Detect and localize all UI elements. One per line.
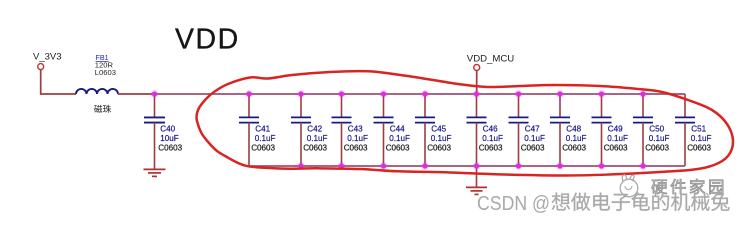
svg-text:C0603: C0603: [158, 144, 182, 153]
wire FB1 to C40 junction: [118, 93, 155, 95]
svg-text:0.1uF: 0.1uF: [389, 134, 410, 143]
capacitor C40: [144, 94, 165, 169]
svg-text:C43: C43: [348, 124, 363, 133]
svg-text:0.1uF: 0.1uF: [431, 134, 452, 143]
capacitor C48: [550, 94, 570, 166]
svg-text:C0603: C0603: [687, 144, 711, 153]
svg-text:C49: C49: [608, 124, 623, 133]
svg-text:V_3V3: V_3V3: [33, 51, 62, 62]
ground below bus: [466, 187, 487, 194]
svg-text:C0603: C0603: [251, 144, 275, 153]
capacitor C44: [374, 94, 394, 166]
svg-text:0.1uF: 0.1uF: [566, 134, 587, 143]
svg-text:C48: C48: [566, 124, 581, 133]
C42 labels: [303, 124, 327, 152]
C51 labels: [687, 124, 711, 152]
ferrite bead FB1 inductor symbol: [76, 89, 118, 94]
svg-text:0.1uF: 0.1uF: [255, 134, 276, 143]
svg-text:C44: C44: [390, 124, 405, 133]
bottom bus wire: [249, 165, 685, 167]
svg-text:10uF: 10uF: [160, 134, 179, 143]
wire VDD_MCU to bus: [476, 71, 478, 95]
label cizhu (magnetic bead): [94, 105, 102, 113]
svg-text:C50: C50: [649, 124, 664, 133]
svg-text:C0603: C0603: [479, 144, 503, 153]
svg-text:C0603: C0603: [303, 144, 327, 153]
svg-text:C42: C42: [307, 124, 322, 133]
watermark text yingjian jiayuan: [652, 180, 667, 194]
svg-text:C0603: C0603: [645, 144, 669, 153]
svg-text:L0603: L0603: [95, 68, 116, 77]
capacitor C51: [675, 94, 695, 166]
capacitor C43: [332, 94, 352, 166]
C44 labels: [386, 124, 410, 152]
capacitor C50: [633, 94, 653, 166]
svg-text:C0603: C0603: [386, 144, 410, 153]
C49 labels: [604, 124, 628, 152]
C40 labels: [158, 124, 182, 152]
power port VDD_MCU circle: [474, 65, 480, 71]
svg-text:VDD_MCU: VDD_MCU: [467, 53, 515, 64]
C50 labels: [645, 124, 669, 152]
svg-text:C40: C40: [160, 124, 175, 133]
svg-text:0.1uF: 0.1uF: [482, 134, 503, 143]
svg-text:0.1uF: 0.1uF: [524, 134, 545, 143]
capacitor C41: [239, 94, 259, 166]
C46 labels: [479, 124, 503, 152]
svg-text:0.1uF: 0.1uF: [307, 134, 328, 143]
red highlight ellipse: [196, 71, 733, 175]
ground below C40: [144, 169, 166, 176]
C47 labels: [521, 124, 545, 152]
watermark logo circle: [620, 175, 638, 197]
junction dots top bus: [151, 90, 647, 98]
svg-text:0.1uF: 0.1uF: [607, 134, 628, 143]
top bus wire to C51: [155, 93, 686, 95]
power port V_3V3 circle: [38, 64, 44, 70]
svg-text:CSDN @: CSDN @: [477, 193, 550, 215]
svg-text:C45: C45: [431, 124, 446, 133]
wire from V_3V3 port down and right: [41, 70, 76, 94]
svg-text:C0603: C0603: [521, 144, 545, 153]
capacitor C47: [509, 94, 529, 166]
svg-text:C0603: C0603: [427, 144, 451, 153]
svg-text:C0603: C0603: [562, 144, 586, 153]
svg-text:0.1uF: 0.1uF: [649, 134, 670, 143]
svg-text:C0603: C0603: [344, 144, 368, 153]
svg-text:0.1uF: 0.1uF: [691, 134, 712, 143]
junction dots bottom bus: [297, 162, 647, 170]
C43 labels: [344, 124, 368, 152]
svg-text:C0603: C0603: [604, 144, 628, 153]
svg-text:C46: C46: [483, 124, 498, 133]
capacitor C46: [467, 94, 487, 166]
wire bottom bus to ground: [476, 166, 478, 187]
C41 labels: [251, 124, 275, 152]
capacitor C42: [291, 94, 311, 166]
capacitor C49: [592, 94, 612, 166]
C48 labels: [562, 124, 586, 152]
svg-text:0.1uF: 0.1uF: [347, 134, 368, 143]
capacitor C45: [415, 94, 435, 166]
svg-text:VDD: VDD: [175, 24, 240, 56]
svg-text:C51: C51: [691, 124, 706, 133]
C45 labels: [427, 124, 451, 152]
svg-text:C41: C41: [255, 124, 270, 133]
svg-text:C47: C47: [525, 124, 540, 133]
